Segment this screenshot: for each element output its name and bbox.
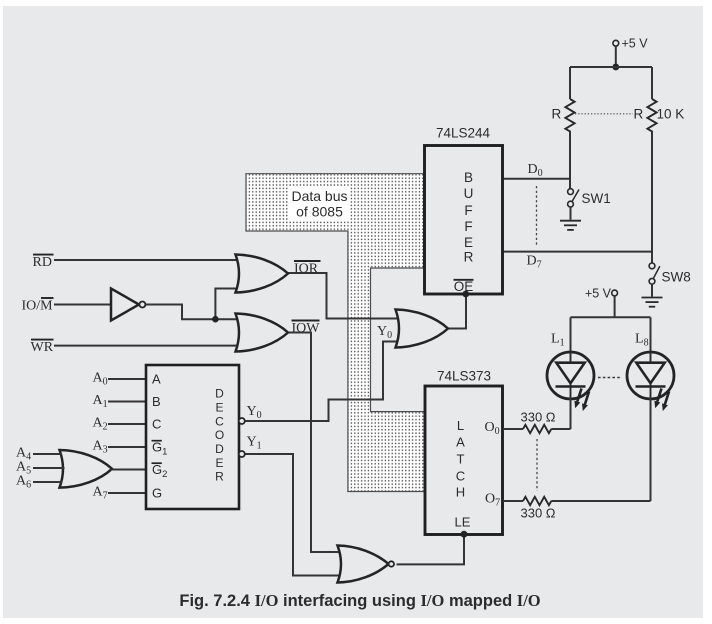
wire D7 from buffer to SW8 column: [503, 251, 652, 253]
label IOR (active low): [294, 261, 321, 277]
svg-text:WR: WR: [31, 340, 54, 355]
wire junction up to IOR bottom input: [215, 289, 240, 320]
wire WR to IOW gate: [54, 345, 238, 347]
svg-text:R: R: [215, 470, 224, 484]
wire A7 input: [108, 492, 146, 494]
svg-text:O: O: [215, 428, 224, 442]
wire OE gate output up to buffer OE pin: [448, 294, 467, 329]
label D7: [527, 254, 542, 271]
label A6: [16, 474, 31, 491]
node inverter output junction: [212, 316, 219, 323]
svg-text:T: T: [457, 452, 465, 467]
label Y0 near OE gate: [377, 324, 392, 341]
svg-text:IO/M: IO/M: [22, 299, 54, 314]
resistor 330 ohm (top): [521, 410, 556, 434]
svg-text:LE: LE: [455, 515, 471, 530]
label O7: [485, 492, 500, 509]
svg-text:R: R: [552, 107, 562, 122]
svg-text:B: B: [152, 394, 161, 409]
svg-text:A: A: [456, 435, 465, 450]
wire Y1 from decoder to NOR gate bottom input: [243, 454, 341, 576]
svg-text:R: R: [634, 107, 644, 122]
svg-text:74LS373: 74LS373: [437, 369, 491, 384]
+5V mid terminal: [585, 287, 618, 301]
svg-text:Data bus: Data bus: [291, 188, 347, 204]
svg-text:330 Ω: 330 Ω: [521, 410, 556, 425]
label A3: [93, 439, 108, 456]
label A7: [93, 485, 108, 502]
label A0: [93, 371, 108, 388]
svg-text:E: E: [215, 456, 223, 470]
svg-text:SW8: SW8: [662, 270, 691, 285]
wire D0 from buffer to SW1 column: [503, 178, 571, 180]
svg-text:B: B: [464, 170, 473, 185]
output Y1 bubble: [239, 451, 245, 457]
wire IOR output to OE gate top input: [286, 273, 398, 319]
or-gate IOR: [236, 255, 289, 293]
resistor R 10 K (right pull-up): [634, 99, 685, 131]
or-gate IOW: [236, 314, 289, 352]
svg-text:E: E: [464, 235, 473, 250]
wire IOW output down to NOR gate top input: [286, 333, 341, 553]
caption: [179, 591, 540, 610]
label O0: [485, 420, 500, 437]
node LE pin junction: [461, 531, 468, 538]
wire L1 anode branch: [570, 317, 572, 352]
label A4: [16, 446, 31, 463]
wire O7 from latch: [503, 500, 651, 502]
label IOW (active low): [292, 321, 321, 337]
wire +5V stem to rail: [615, 46, 617, 67]
svg-text:C: C: [152, 417, 161, 432]
dashed separator between O0 and O7: [536, 439, 538, 491]
svg-text:F: F: [464, 219, 472, 234]
svg-text:IOW: IOW: [292, 321, 321, 336]
or-gate A4-A6: [60, 450, 113, 488]
svg-text:RD: RD: [33, 255, 52, 270]
svg-text:+5 V: +5 V: [585, 287, 612, 301]
svg-text:of 8085: of 8085: [296, 204, 343, 220]
label L8: [635, 332, 649, 349]
LED L1: [547, 352, 594, 411]
decoder block: [146, 365, 239, 509]
svg-text:C: C: [215, 414, 224, 428]
or-gate OE driver: [396, 310, 449, 348]
wire left pull-up column: [569, 67, 571, 189]
resistor R (left pull-up): [552, 99, 575, 131]
ground below SW8: [642, 284, 663, 307]
data bus hatched region: [246, 174, 425, 492]
label IO/M: [22, 298, 54, 314]
svg-text:G: G: [152, 486, 162, 501]
wire IO/M to inverter: [54, 304, 112, 306]
svg-text:D: D: [215, 387, 224, 401]
node +5V rail junction: [612, 64, 619, 71]
+5V top terminal: [613, 37, 648, 51]
svg-text:L: L: [457, 418, 464, 433]
wire A6 input: [33, 481, 62, 483]
label Y0: [247, 404, 262, 421]
buffer 74LS244 block: [425, 126, 503, 295]
wire +5V mid stem and LED rail: [571, 296, 651, 317]
svg-text:Fig. 7.2.4 I/O interfacing usi: Fig. 7.2.4 I/O interfacing using I/O map…: [179, 591, 540, 610]
wire Y0 from decoder to OE gate bottom input: [243, 342, 398, 422]
dashed separator between D0 and D7: [536, 186, 538, 246]
label WR (active low): [31, 340, 54, 355]
label L1: [551, 332, 565, 349]
svg-text:IOR: IOR: [294, 262, 319, 277]
dotted tie line between resistors: [575, 113, 633, 115]
LED L8: [627, 352, 674, 411]
svg-text:10 K: 10 K: [657, 107, 685, 122]
svg-text:U: U: [464, 186, 474, 201]
wire A4 input: [33, 453, 62, 455]
wire RD to IOR gate: [54, 259, 240, 261]
label Y1: [247, 435, 262, 452]
label A2: [93, 416, 108, 433]
svg-text:A: A: [152, 372, 161, 387]
wire A3 input: [108, 446, 146, 448]
svg-text:H: H: [456, 485, 465, 500]
label D0: [528, 162, 543, 179]
svg-text:330 Ω: 330 Ω: [521, 506, 556, 521]
inverter on IO/M: [111, 289, 145, 321]
wire A1 input: [108, 401, 146, 403]
wire L8 anode branch: [650, 317, 652, 352]
wire right pull-up column: [651, 67, 653, 263]
wire A0 input: [108, 378, 146, 380]
label RD (active low): [33, 255, 54, 270]
label A5: [16, 460, 31, 477]
wire O0 from latch: [503, 428, 571, 430]
svg-text:E: E: [215, 400, 223, 414]
wire NOR gate output up to latch LE pin: [397, 534, 465, 564]
dashed tie line between LEDs: [598, 377, 622, 379]
wire A5 input: [33, 467, 65, 469]
svg-text:74LS244: 74LS244: [436, 126, 491, 141]
latch 74LS373 block: [425, 369, 503, 535]
svg-text:R: R: [464, 250, 474, 265]
data bus label "Data bus of 8085": [289, 186, 351, 221]
wire L8 cathode down to O7 line: [650, 397, 652, 501]
ground below SW1: [560, 207, 581, 230]
svg-text:+5 V: +5 V: [622, 37, 649, 51]
switch SW8: [649, 263, 691, 285]
svg-text:C: C: [456, 469, 465, 484]
wire A2 input: [108, 423, 146, 425]
node OE pin junction: [462, 291, 469, 298]
switch SW1: [568, 189, 611, 207]
wire A4-A6 gate output to G2: [111, 469, 147, 471]
label A1: [93, 393, 108, 410]
nor-gate LE driver: [338, 546, 394, 583]
output Y0 bubble: [239, 418, 245, 424]
wire inverter output to junction and IOW top input: [146, 305, 241, 320]
wire top rail: [570, 66, 652, 68]
svg-text:D: D: [215, 442, 224, 456]
resistor 330 ohm (bottom): [521, 497, 556, 521]
svg-text:F: F: [464, 203, 472, 218]
wire L1 cathode down to O0 line: [570, 397, 572, 429]
svg-text:SW1: SW1: [582, 191, 611, 206]
